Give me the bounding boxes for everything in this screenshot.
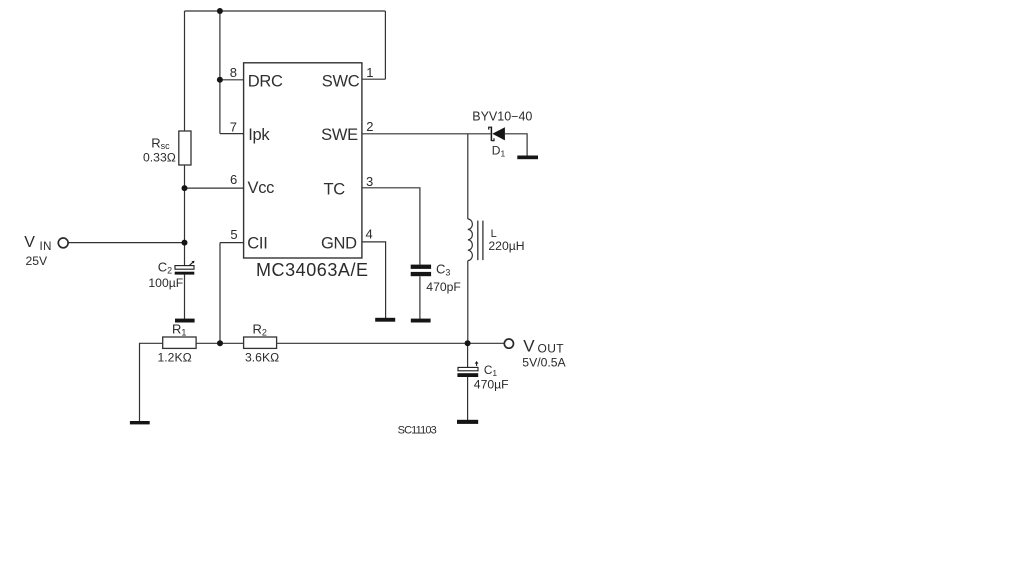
capacitor C3 ceramic [411, 265, 431, 277]
ground bar C2 [175, 319, 195, 323]
svg-text:5: 5 [230, 227, 237, 242]
terminal VIN circle [58, 238, 68, 248]
wire R1 to feedback node [196, 342, 220, 344]
node junction pin8 DRC [217, 77, 223, 83]
wire R2 to output [277, 342, 505, 344]
wire pin2 SWE horizontal [362, 133, 491, 135]
svg-text:BYV10−40: BYV10−40 [472, 110, 532, 124]
wire Rsc to Vin node [184, 165, 186, 266]
svg-text:V: V [24, 234, 35, 251]
wire pin5 stub CII [220, 242, 244, 244]
svg-text:1: 1 [366, 65, 373, 80]
svg-text:GND: GND [321, 234, 357, 252]
svg-text:25V: 25V [26, 254, 49, 268]
wire pin7 stub Ipk [220, 133, 244, 135]
resistor R2 [244, 337, 277, 348]
svg-text:Ipk: Ipk [248, 126, 270, 144]
svg-text:DRC: DRC [248, 73, 283, 91]
node junction Vin [182, 240, 188, 246]
svg-text:470pF: 470pF [426, 280, 461, 294]
wire pin6 Vcc horizontal [185, 187, 244, 189]
wire drc-ipk vertical [219, 11, 221, 134]
IC U1 MC34063A/E body [244, 63, 362, 258]
svg-text:SWC: SWC [322, 73, 360, 91]
wire Vin horizontal [69, 242, 185, 244]
svg-text:CII: CII [247, 235, 267, 253]
svg-text:SC11103: SC11103 [398, 424, 437, 436]
svg-text:3: 3 [366, 174, 373, 189]
diode D1 schottky BYV10-40 [489, 127, 505, 141]
svg-text:SWE: SWE [321, 126, 358, 144]
resistor R1 [163, 337, 196, 348]
svg-text:0.33Ω: 0.33Ω [143, 150, 176, 164]
wire top horizontal [185, 10, 386, 12]
svg-text:V: V [523, 337, 535, 356]
resistor Rsc [179, 131, 191, 165]
svg-text:7: 7 [230, 119, 237, 134]
wire SWE node to inductor [467, 134, 469, 219]
svg-text:8: 8 [230, 65, 237, 80]
svg-text:6: 6 [230, 172, 237, 187]
svg-text:3.6KΩ: 3.6KΩ [245, 351, 279, 365]
ground bar diode D1 [517, 156, 538, 160]
wire feedback node to R2 [220, 342, 244, 344]
wire pin4 GND to ground [362, 242, 386, 318]
terminal VOUT circle [504, 339, 513, 348]
svg-text:L: L [491, 228, 497, 240]
wire pin1 vertical to top [384, 11, 386, 79]
svg-text:470µF: 470µF [474, 377, 509, 391]
inductor L core bars [477, 221, 479, 261]
svg-text:220µH: 220µH [488, 239, 524, 253]
wire left main vertical upper [184, 11, 186, 131]
wire pin8 stub DRC [220, 79, 244, 81]
wire pin1 stub SWC [362, 78, 386, 80]
node junction feedback R1 R2 [217, 340, 223, 346]
svg-text:2: 2 [366, 119, 373, 134]
svg-text:TC: TC [324, 180, 346, 198]
svg-text:4: 4 [366, 226, 373, 241]
wire inductor to output node [467, 261, 469, 344]
wire diode to ground corner [505, 134, 527, 156]
svg-text:MC34063A/E: MC34063A/E [256, 260, 369, 280]
capacitor C1 electrolytic [457, 361, 478, 377]
ground bar C3 [411, 319, 431, 323]
ground bar R1 [130, 421, 150, 424]
wire output node to C1 [467, 343, 469, 367]
wire C3 to ground [419, 276, 421, 319]
wire C1 to ground [467, 377, 469, 420]
node junction top wire [217, 8, 223, 14]
svg-text:IN: IN [40, 241, 52, 253]
svg-text:5V/0.5A: 5V/0.5A [522, 356, 566, 370]
capacitor C2 electrolytic [175, 261, 195, 275]
svg-text:1.2KΩ: 1.2KΩ [158, 351, 192, 365]
wire CII to feedback node vertical [219, 243, 221, 344]
ground bar pin4 GND [375, 318, 395, 322]
ground bar C1 [457, 420, 478, 424]
svg-text:100µF: 100µF [148, 276, 183, 290]
wire R1 left to ground [140, 343, 163, 421]
node junction Vcc [182, 185, 188, 191]
node junction output [465, 340, 471, 346]
svg-text:OUT: OUT [538, 342, 565, 356]
svg-text:Vcc: Vcc [248, 179, 275, 197]
inductor L coil [468, 219, 473, 261]
wire pin3 TC to C3 [362, 188, 420, 265]
wire C2 to ground [184, 275, 186, 320]
